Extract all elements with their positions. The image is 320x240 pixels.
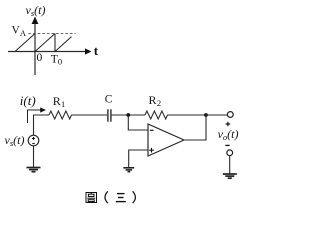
svg-text:i(t): i(t) [20,93,36,108]
op-amp plus sign [149,148,154,153]
resistor R1 [49,111,72,119]
caption 圖（三） [86,191,135,203]
node B junction [204,113,208,117]
svg-text:R1: R1 [53,94,66,109]
ground (op-amp) [123,168,134,172]
svg-text:R2: R2 [149,93,162,108]
output terminal - [227,150,233,156]
label - (output) [225,144,229,146]
wire node A to inverting input [128,115,148,130]
op-amp minus sign [150,129,154,131]
waveform horizontal axis [8,48,92,54]
svg-text:vo(t): vo(t) [218,127,239,142]
wire op-amp output to node B [184,115,206,140]
wire node B to output terminal [206,114,227,116]
voltage source VS [28,135,39,146]
waveform vertical axis [32,17,39,76]
op-amp U1 [148,124,184,156]
wire noninverting input to ground [129,150,148,167]
wire terminal to ground [229,156,231,174]
resistor R2 [145,111,168,119]
svg-text:vs(t): vs(t) [5,133,25,148]
wire source to R1 [34,115,50,135]
current arrow i(t) [28,107,47,123]
wire C to node A [112,114,146,116]
sawtooth ramp 3 [55,37,72,52]
svg-text:C: C [105,94,113,106]
label + (output) [226,122,231,126]
node A junction [126,113,130,117]
wire source to ground [33,146,35,168]
ground (output) [223,174,237,178]
svg-text:VA: VA [12,25,27,39]
wire R2 to node B [168,114,207,116]
sawtooth ramp 2 [35,34,55,52]
output terminal + [227,112,233,118]
dashed level line [29,33,76,35]
capacitor C [108,109,111,121]
svg-text:vs(t): vs(t) [26,3,46,18]
svg-text:t: t [94,43,99,58]
wire R1 to C [72,114,108,116]
sawtooth drop at T0 [54,34,56,52]
svg-text:0: 0 [37,52,43,64]
ground (source) [27,168,41,172]
svg-text:T0: T0 [51,54,62,67]
sawtooth ramp 1 [15,34,35,52]
